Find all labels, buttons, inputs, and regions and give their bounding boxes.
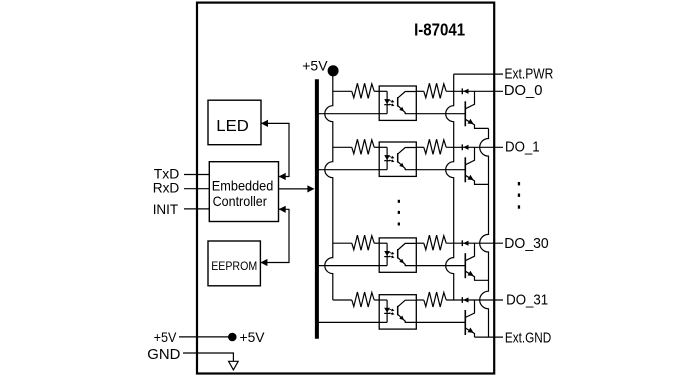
optocoupler U2 light arrows (389, 157, 393, 158)
wire controller to bus (279, 188, 314, 190)
diode D1 (DO_0 clamp to Ext.PWR) (461, 88, 463, 94)
ground symbol (229, 361, 239, 370)
wire DO_0 output line (446, 90, 503, 92)
wire opto emitter to transistor base DO_30 (416, 265, 465, 267)
wire GND (183, 353, 233, 361)
resistor R1b (DO_0 pull-up) (424, 83, 446, 98)
svg-text:I-87041: I-87041 (414, 20, 465, 40)
wire controller to LED (261, 123, 289, 176)
resistor R3a (DO_30 LED series) (352, 235, 374, 250)
wire bus to optocoupler LED cathode DO_1 (318, 169, 387, 171)
wire DO_31 output line (446, 299, 503, 301)
svg-text:RxD: RxD (153, 180, 180, 196)
svg-text:DO_30: DO_30 (504, 236, 548, 252)
optocoupler U1 box (379, 86, 416, 120)
wire DO_1 output line (446, 146, 503, 148)
optocoupler U1 light arrows (389, 101, 393, 102)
wire INIT to controller (184, 208, 209, 210)
wire opto emitter to transistor base DO_1 (416, 169, 465, 171)
wire resistor to optocoupler DO_31 (374, 299, 387, 301)
svg-text:LED: LED (216, 118, 249, 135)
transistor Q1 (DO_0 driver) (464, 101, 466, 126)
svg-text:Ext.GND: Ext.GND (505, 330, 551, 346)
EEPROM box (208, 241, 260, 286)
wire optocoupler to pull-up resistor DO_31 (416, 299, 424, 301)
resistor R4b (DO_31 pull-up) (424, 292, 446, 307)
svg-text:+5V: +5V (240, 329, 266, 345)
svg-text:DO_0: DO_0 (504, 83, 543, 99)
channel DO_30 : wire +5V to resistor (333, 242, 352, 244)
optocoupler U4 box (379, 295, 416, 329)
optocoupler U2 box (379, 142, 416, 176)
wire Ext.PWR (454, 73, 503, 75)
wire opto emitter to transistor base DO_0 (416, 113, 465, 115)
optocoupler U3 internal LED (386, 243, 388, 265)
optocoupler U4 internal LED (386, 300, 388, 322)
wire bus to optocoupler LED cathode DO_0 (318, 113, 387, 115)
optocoupler U3 light arrows (389, 252, 393, 253)
optocoupler U2 phototransistor (397, 153, 399, 163)
optocoupler U3 phototransistor (397, 249, 399, 259)
transistor Q2 (DO_1 driver) (464, 157, 466, 182)
diode D2 (DO_1 clamp to Ext.PWR) (461, 144, 463, 150)
wire optocoupler to pull-up resistor DO_1 (416, 146, 424, 148)
resistor R3b (DO_30 pull-up) (424, 235, 446, 250)
wire DO_30 output line (446, 242, 503, 244)
+5V node dot (bottom) (228, 333, 237, 342)
resistor R4a (DO_31 LED series) (352, 292, 374, 307)
LED box (208, 100, 261, 145)
ellipsis dots (right label column) (518, 182, 520, 185)
wire TxD to controller (184, 174, 209, 176)
Ext.PWR rail with hops (446, 74, 454, 300)
wire Ext.GND (475, 336, 504, 338)
optocoupler U1 phototransistor (397, 97, 399, 107)
svg-text:DO_1: DO_1 (505, 139, 540, 155)
optocoupler U4 phototransistor (397, 306, 399, 316)
transistor Q4 (DO_31 driver) (464, 310, 466, 335)
wire opto emitter to transistor base DO_31 (416, 321, 465, 323)
svg-text:INIT: INIT (153, 201, 179, 217)
wire +5V bottom (179, 336, 228, 338)
wire bus to optocoupler LED cathode DO_31 (318, 321, 387, 323)
diode D4 (DO_31 clamp to Ext.PWR) (461, 297, 463, 303)
svg-text:Ext.PWR: Ext.PWR (505, 66, 554, 82)
wire optocoupler to pull-up resistor DO_30 (416, 242, 424, 244)
wire resistor to optocoupler DO_30 (374, 242, 387, 244)
svg-text:DO_31: DO_31 (506, 292, 548, 308)
wire resistor to optocoupler DO_1 (374, 146, 387, 148)
optocoupler U1 internal LED (386, 91, 388, 113)
resistor R1a (DO_0 LED series) (352, 83, 374, 98)
+5V feeder wire with hops (325, 71, 333, 300)
internal bus (thick bar) (315, 79, 319, 339)
+5V node dot (top) (328, 65, 339, 76)
optocoupler U4 light arrows (389, 309, 393, 310)
resistor R2b (DO_1 pull-up) (424, 139, 446, 154)
svg-text:+5V: +5V (154, 329, 177, 345)
module outline box (197, 3, 494, 374)
svg-text:Controller: Controller (213, 194, 268, 209)
wire controller to EEPROM (260, 209, 289, 262)
svg-text:Embedded: Embedded (212, 179, 273, 194)
ellipsis dots (middle channels omitted, opto column) (398, 200, 400, 203)
svg-text:+5V: +5V (302, 58, 328, 74)
emitter rail to Ext.GND with hops (480, 128, 489, 337)
wire bus to optocoupler LED cathode DO_30 (318, 265, 387, 267)
wire optocoupler to pull-up resistor DO_0 (416, 90, 424, 92)
resistor R2a (DO_1 LED series) (352, 139, 374, 154)
wire RxD to controller (184, 188, 209, 190)
Embedded Controller box U1 (209, 162, 278, 222)
optocoupler U2 internal LED (386, 147, 388, 169)
svg-text:GND: GND (147, 347, 180, 363)
channel DO_31 : wire +5V to resistor (333, 299, 352, 301)
channel DO_1 : wire +5V to resistor (333, 146, 352, 148)
transistor Q3 (DO_30 driver) (464, 253, 466, 278)
svg-text:EEPROM: EEPROM (211, 260, 257, 273)
wire resistor to optocoupler DO_0 (374, 90, 387, 92)
optocoupler U3 box (379, 238, 416, 272)
diode D3 (DO_30 clamp to Ext.PWR) (461, 240, 463, 246)
channel DO_0 : wire +5V to resistor (333, 90, 352, 92)
